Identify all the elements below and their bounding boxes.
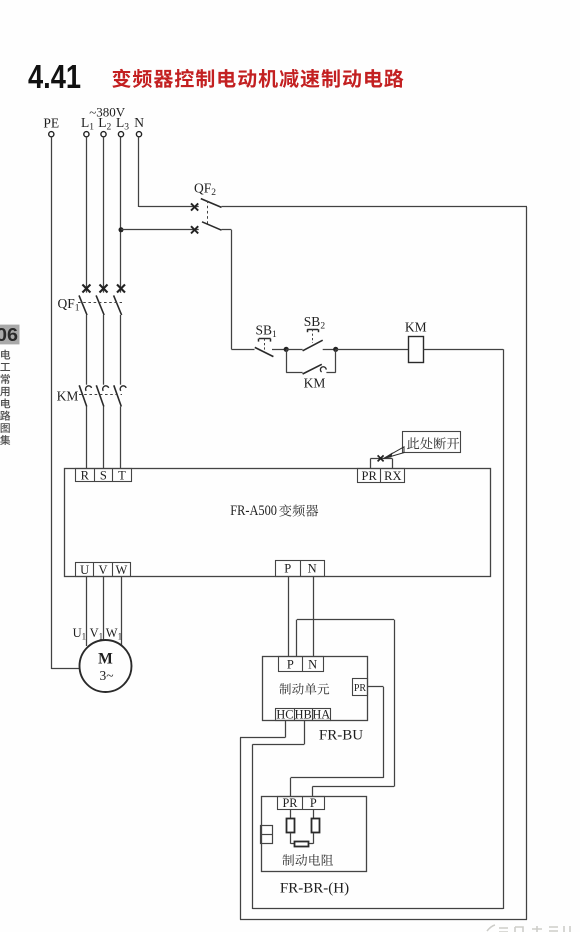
breaker QF1 pole at x=103.5 — [100, 285, 108, 293]
terminal block on resistor box left edge — [261, 826, 273, 844]
wire N inverter to brake unit — [313, 576, 315, 657]
wire control feed L down to SB1 — [231, 230, 233, 349]
brake resistor label 制动电阻 — [282, 854, 294, 866]
svg-text:HC: HC — [276, 708, 293, 722]
wire brake unit P to resistor P (upper link) — [296, 620, 298, 657]
svg-text:N: N — [134, 115, 144, 130]
terminal PE — [49, 132, 54, 137]
brake resistor box FR-BR-(H) — [262, 797, 367, 872]
svg-text:RX: RX — [384, 469, 401, 483]
wire L3 middle — [120, 315, 122, 385]
svg-text:HA: HA — [312, 708, 330, 722]
contactor KM linkage (dashed) — [79, 394, 122, 396]
resistor R2 (vertical) — [313, 809, 315, 819]
svg-text:P: P — [284, 561, 291, 575]
svg-text:PE: PE — [43, 116, 59, 131]
breaker QF2 pole 2 — [191, 226, 198, 233]
wire U to motor — [86, 576, 88, 646]
wire dot B to coil KM — [336, 349, 409, 351]
contactor KM main contact at x=121.0 — [120, 386, 126, 391]
svg-text:FR-BR-(H): FR-BR-(H) — [280, 881, 349, 897]
wire L2 middle — [103, 315, 105, 385]
svg-text:S: S — [100, 469, 107, 483]
breaker QF1 pole at x=121.0 — [117, 285, 125, 293]
wire brake unit PR to resistor PR — [368, 686, 384, 688]
svg-text:FR-A500: FR-A500 — [230, 503, 277, 519]
breaker QF2 pole 1 — [191, 203, 198, 210]
wire KM circuit up to HB — [252, 744, 254, 909]
breaker QF2 linkage (dashed) — [207, 201, 209, 224]
wire N return up to HC — [240, 738, 242, 920]
svg-text:PR: PR — [282, 796, 298, 810]
terminal N — [136, 132, 141, 137]
pushbutton SB1 (NC) — [255, 347, 274, 356]
wire PE down to motor — [51, 137, 53, 669]
contactor KM main contact at x=86.4 — [86, 386, 92, 391]
wire L2 to S — [103, 407, 105, 469]
inverter FR-A500 box — [65, 469, 491, 577]
wire L3 upper — [120, 137, 122, 293]
contact KM auxiliary (self-hold) — [286, 349, 288, 372]
wire W to motor — [121, 576, 123, 645]
svg-text:M: M — [98, 651, 113, 668]
svg-text:HB: HB — [295, 708, 312, 722]
inverter terminals P N — [276, 561, 325, 577]
wire KM circuit right side down — [503, 349, 505, 909]
terminal L2 — [101, 132, 106, 137]
terminal L3 — [118, 132, 123, 137]
coil KM — [409, 337, 424, 363]
svg-text:N: N — [308, 561, 317, 575]
callout arrow — [383, 447, 404, 459]
callout box 此处断开 — [403, 432, 461, 453]
svg-text:FR-BU: FR-BU — [319, 728, 363, 744]
breaker QF1 linkage (dashed) — [78, 302, 122, 304]
terminal L1 — [84, 132, 89, 137]
wire L2 upper — [103, 137, 105, 293]
brake unit label 制动单元 — [279, 683, 290, 694]
wire V to motor — [103, 576, 105, 641]
inverter terminals R S T — [76, 469, 132, 482]
title text 变频器控制电动机减速制动电路 (red) — [112, 69, 131, 88]
wire L1 upper — [86, 137, 88, 293]
svg-text:KM: KM — [304, 376, 326, 391]
resistor R3 (horizontal) — [291, 843, 295, 845]
svg-text:P: P — [287, 658, 294, 672]
svg-text:V: V — [98, 563, 107, 577]
svg-text:U: U — [80, 563, 89, 577]
jumper PR-RX with break — [370, 458, 392, 460]
node junction dot A — [284, 347, 289, 352]
wire N return bottom — [240, 919, 527, 921]
svg-text:T: T — [118, 469, 126, 483]
pushbutton SB2 (NO) — [286, 349, 302, 351]
brake unit terminal PR — [353, 679, 368, 696]
sidebar vertical text 电工常用电路图集 — [1, 350, 10, 360]
sidebar page tab 06 — [0, 325, 20, 345]
resistor R1 (vertical) — [290, 809, 292, 819]
wire coil KM to right side — [424, 349, 504, 351]
brake unit terminals P N — [279, 657, 324, 672]
node junction on L3 feeding QF2 pole 2 — [119, 227, 124, 232]
svg-text:PR: PR — [354, 683, 367, 694]
svg-text:R: R — [81, 469, 90, 483]
svg-text:3~: 3~ — [99, 668, 113, 683]
svg-text:W: W — [115, 563, 127, 577]
breaker QF1 pole at x=86.4 — [82, 285, 90, 293]
svg-text:N: N — [308, 658, 317, 672]
svg-text:KM: KM — [405, 320, 427, 335]
brake resistor terminals PR P — [278, 797, 325, 810]
svg-text:4.41: 4.41 — [28, 58, 81, 95]
node junction dot B — [333, 347, 338, 352]
contactor KM main contact at x=103.5 — [103, 386, 109, 391]
svg-text:P: P — [310, 796, 317, 810]
wire L3 to T — [120, 407, 122, 469]
svg-text:PR: PR — [362, 469, 378, 483]
brake unit FR-BU box — [263, 657, 368, 721]
wire P inverter to brake unit — [288, 576, 290, 657]
svg-text:KM: KM — [57, 389, 79, 404]
inverter terminals U V W — [76, 563, 131, 577]
svg-text:06: 06 — [0, 325, 18, 345]
brake unit terminals HC HB HA — [276, 709, 331, 721]
wire N to QF2 pole 1 — [138, 137, 140, 207]
wire L1 to R — [86, 407, 88, 469]
wire N return right side down — [526, 207, 528, 920]
motor M 3~ — [80, 640, 132, 692]
wire KM circuit bottom — [253, 908, 504, 910]
faint scan watermark — [487, 925, 570, 932]
inverter terminals PR RX — [358, 469, 405, 483]
wire L1 middle — [86, 315, 88, 385]
